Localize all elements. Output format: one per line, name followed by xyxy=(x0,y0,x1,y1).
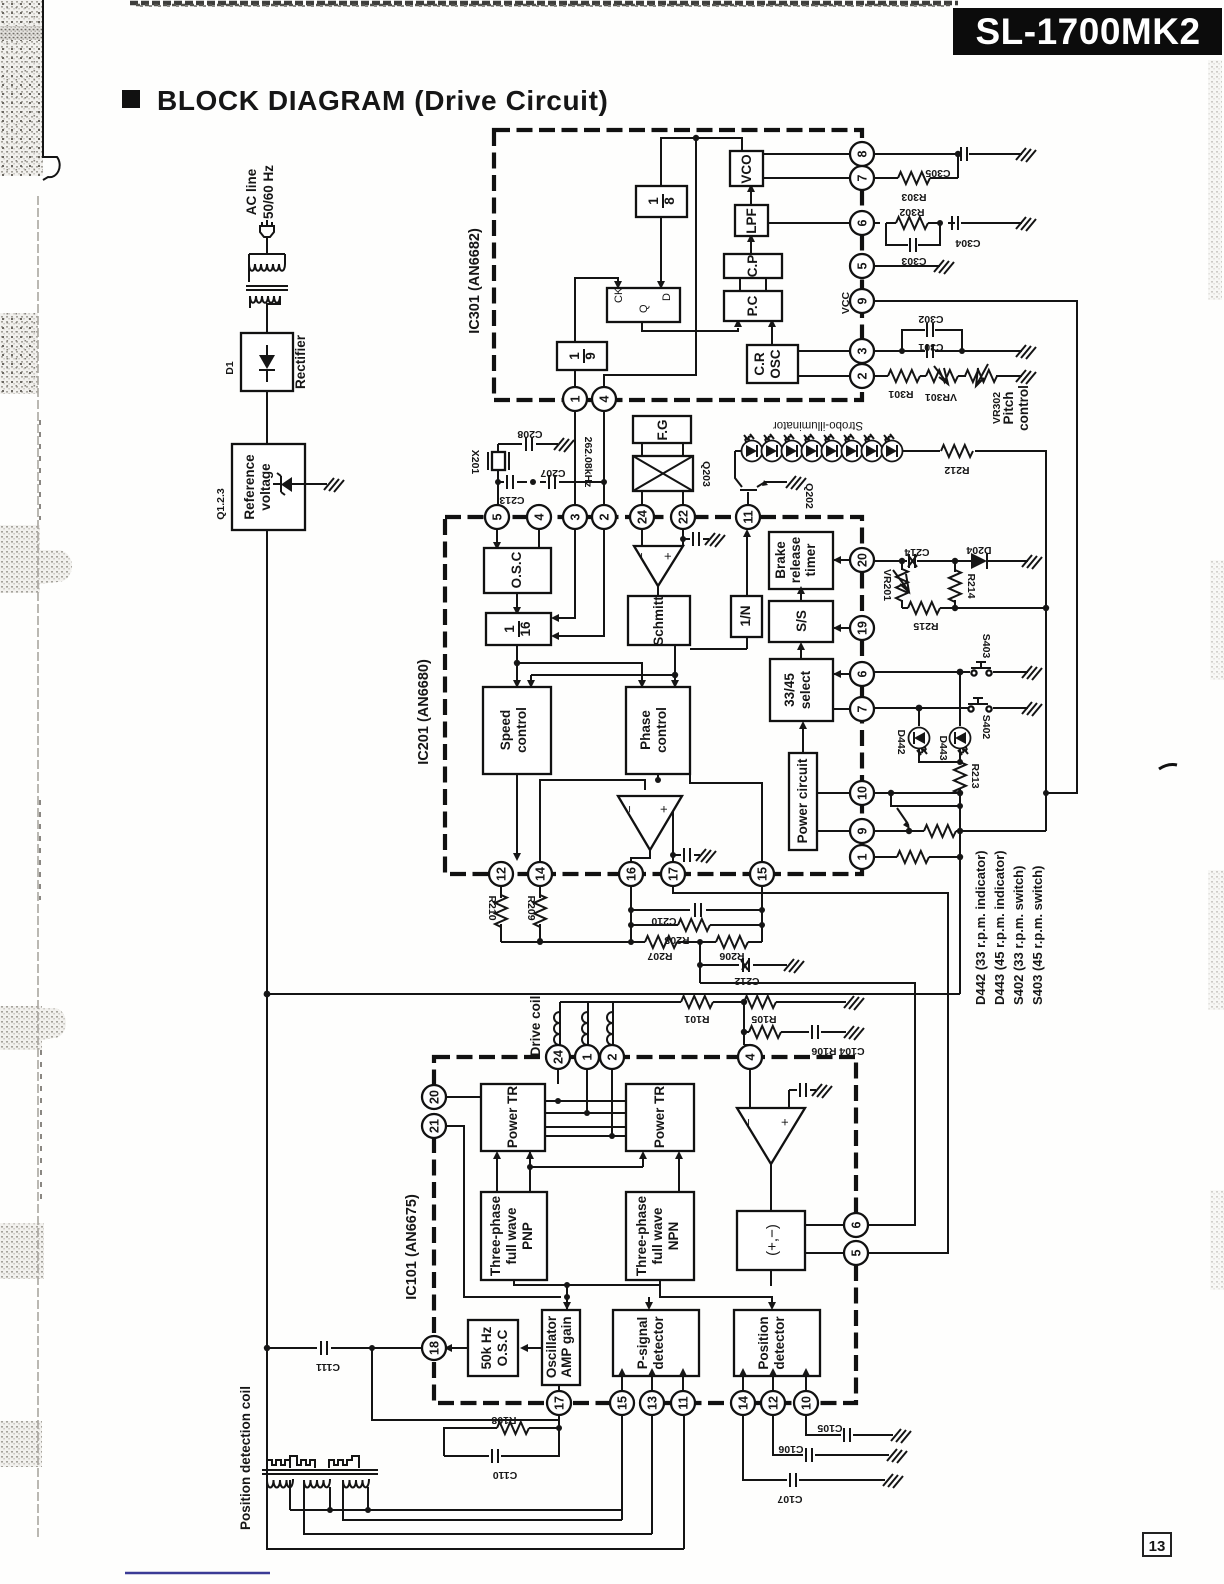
svg-text:6: 6 xyxy=(856,219,870,226)
svg-text:D442: D442 xyxy=(895,729,907,754)
svg-text:24: 24 xyxy=(636,510,650,524)
svg-text:D442 (33 r.p.m. indicator): D442 (33 r.p.m. indicator) xyxy=(973,850,988,1005)
svg-text:S403 (45 r.p.m. switch): S403 (45 r.p.m. switch) xyxy=(1030,866,1045,1005)
svg-text:16: 16 xyxy=(625,867,639,881)
svg-text:Q1.2.3: Q1.2.3 xyxy=(215,488,227,520)
svg-text:Oscillator: Oscillator xyxy=(544,1315,559,1378)
svg-text:R207: R207 xyxy=(647,950,672,962)
svg-text:20: 20 xyxy=(428,1090,442,1104)
svg-text:O.S.C: O.S.C xyxy=(509,551,524,588)
svg-text:VCO: VCO xyxy=(739,154,754,183)
svg-text:5: 5 xyxy=(850,1249,864,1256)
svg-text:C107: C107 xyxy=(777,1493,802,1505)
svg-text:LPF: LPF xyxy=(744,208,759,234)
svg-text:20: 20 xyxy=(856,553,870,567)
svg-text:5: 5 xyxy=(856,262,870,269)
svg-text:C106: C106 xyxy=(778,1443,803,1455)
svg-text:R301: R301 xyxy=(888,388,913,400)
svg-text:IC101 (AN6675): IC101 (AN6675) xyxy=(404,1194,420,1300)
svg-text:full wave: full wave xyxy=(504,1207,519,1265)
svg-text:R105: R105 xyxy=(751,1013,776,1025)
svg-text:D: D xyxy=(661,293,673,301)
svg-text:Q: Q xyxy=(638,304,650,313)
svg-text:control: control xyxy=(514,707,529,753)
svg-text:timer: timer xyxy=(803,543,818,577)
svg-text:7: 7 xyxy=(856,705,870,712)
svg-text:50k Hz: 50k Hz xyxy=(479,1326,494,1369)
svg-text:18: 18 xyxy=(428,1341,442,1355)
svg-text:13: 13 xyxy=(1149,1538,1166,1555)
svg-text:NPN: NPN xyxy=(666,1222,681,1251)
svg-text:R101: R101 xyxy=(684,1013,709,1025)
svg-text:R215: R215 xyxy=(913,620,938,632)
svg-text:Speed: Speed xyxy=(498,710,513,751)
svg-text:17: 17 xyxy=(553,1396,567,1410)
svg-text:5: 5 xyxy=(491,513,505,520)
svg-text:4: 4 xyxy=(533,513,547,520)
svg-text:C208: C208 xyxy=(517,428,542,440)
svg-text:O.S.C: O.S.C xyxy=(495,1329,510,1366)
svg-text:S402: S402 xyxy=(980,715,992,740)
svg-text:1: 1 xyxy=(856,853,870,860)
svg-text:2: 2 xyxy=(606,1053,620,1060)
svg-text:D443 (45 r.p.m. indicator): D443 (45 r.p.m. indicator) xyxy=(992,850,1007,1005)
svg-text:2: 2 xyxy=(598,513,612,520)
svg-text:17: 17 xyxy=(667,867,681,881)
svg-text:S403: S403 xyxy=(980,634,992,659)
svg-text:+: + xyxy=(656,805,671,813)
svg-text:12: 12 xyxy=(767,1396,781,1410)
svg-text:8: 8 xyxy=(662,197,677,205)
svg-text:R214: R214 xyxy=(965,573,977,598)
svg-text:Power TR: Power TR xyxy=(652,1086,667,1149)
svg-text:10: 10 xyxy=(856,786,870,800)
svg-text:4: 4 xyxy=(598,395,612,402)
svg-text:C.R: C.R xyxy=(752,352,767,376)
svg-text:C301: C301 xyxy=(918,341,943,353)
svg-text:+: + xyxy=(660,552,675,560)
svg-text:Schmitt: Schmitt xyxy=(651,596,666,646)
svg-text:Position: Position xyxy=(756,1316,771,1369)
svg-text:−: − xyxy=(741,1118,756,1126)
svg-text:X201: X201 xyxy=(469,450,481,475)
svg-text:−: − xyxy=(622,805,637,813)
svg-text:13: 13 xyxy=(646,1396,660,1410)
svg-text:C212: C212 xyxy=(734,975,759,987)
svg-text:8: 8 xyxy=(856,150,870,157)
svg-text:15: 15 xyxy=(616,1396,630,1410)
svg-text:R209: R209 xyxy=(525,895,537,920)
svg-text:C110: C110 xyxy=(493,1469,518,1481)
svg-text:7: 7 xyxy=(856,174,870,181)
svg-text:C213: C213 xyxy=(499,494,524,506)
svg-text:11: 11 xyxy=(677,1396,691,1409)
svg-text:IC301 (AN6682): IC301 (AN6682) xyxy=(467,228,483,334)
svg-text:33/45: 33/45 xyxy=(782,673,797,707)
svg-text:OSC: OSC xyxy=(768,349,783,379)
svg-text:+: + xyxy=(777,1118,792,1126)
svg-text:VR201: VR201 xyxy=(881,569,893,601)
svg-text:D443: D443 xyxy=(937,735,949,760)
svg-text:R302: R302 xyxy=(899,206,924,218)
svg-text:1: 1 xyxy=(581,1053,595,1060)
svg-text:4: 4 xyxy=(744,1053,758,1060)
svg-text:S/S: S/S xyxy=(794,610,809,632)
svg-text:P-signal: P-signal xyxy=(635,1317,650,1370)
svg-text:SL-1700MK2: SL-1700MK2 xyxy=(975,11,1200,52)
svg-text:R213: R213 xyxy=(969,763,981,788)
svg-text:Brake: Brake xyxy=(773,541,788,579)
svg-text:AC line: AC line xyxy=(244,168,259,215)
svg-text:S402 (33 r.p.m. switch): S402 (33 r.p.m. switch) xyxy=(1011,866,1026,1005)
svg-text:1/N: 1/N xyxy=(738,605,753,626)
svg-text:(+,−): (+,−) xyxy=(764,1224,781,1256)
svg-text:C105: C105 xyxy=(817,1422,842,1434)
svg-text:50/60 Hz: 50/60 Hz xyxy=(261,165,276,219)
svg-text:Pitch: Pitch xyxy=(1001,391,1016,424)
svg-text:Three-phase: Three-phase xyxy=(634,1195,649,1276)
svg-text:14: 14 xyxy=(534,867,548,881)
svg-text:P.C: P.C xyxy=(745,295,760,316)
svg-text:IC201 (AN6680): IC201 (AN6680) xyxy=(416,659,432,765)
svg-text:C214: C214 xyxy=(904,546,929,558)
svg-text:262.08kHz: 262.08kHz xyxy=(582,437,594,488)
svg-text:Power circuit: Power circuit xyxy=(795,758,810,843)
svg-text:2: 2 xyxy=(856,372,870,379)
svg-text:Phase: Phase xyxy=(638,710,653,750)
svg-text:Drive coil: Drive coil xyxy=(528,996,543,1057)
svg-text:9: 9 xyxy=(583,352,598,360)
svg-text:Q203: Q203 xyxy=(700,461,712,487)
svg-text:1: 1 xyxy=(569,395,583,402)
svg-text:D204: D204 xyxy=(966,544,991,556)
svg-text:Position detection coil: Position detection coil xyxy=(238,1386,253,1530)
svg-text:F.G: F.G xyxy=(655,419,670,440)
svg-text:R212: R212 xyxy=(944,464,969,476)
svg-text:voltage: voltage xyxy=(258,463,273,511)
svg-text:−: − xyxy=(634,552,649,560)
svg-text:BLOCK DIAGRAM (Drive Circuit): BLOCK DIAGRAM (Drive Circuit) xyxy=(157,85,608,116)
svg-text:Reference: Reference xyxy=(242,454,257,520)
svg-text:detector: detector xyxy=(651,1316,666,1370)
svg-text:C303: C303 xyxy=(901,255,926,267)
svg-text:R303: R303 xyxy=(901,191,926,203)
svg-text:16: 16 xyxy=(518,621,533,637)
svg-text:11: 11 xyxy=(742,510,756,523)
svg-text:full wave: full wave xyxy=(650,1207,665,1265)
svg-text:PNP: PNP xyxy=(520,1222,535,1250)
svg-text:C302: C302 xyxy=(918,313,943,325)
svg-text:Q202: Q202 xyxy=(803,483,815,509)
svg-text:9: 9 xyxy=(856,297,870,304)
svg-text:detector: detector xyxy=(772,1316,787,1370)
svg-text:VCC: VCC xyxy=(840,291,852,314)
svg-text:1: 1 xyxy=(646,197,661,205)
svg-text:C304: C304 xyxy=(955,237,980,249)
svg-text:release: release xyxy=(788,536,803,583)
svg-text:6: 6 xyxy=(850,1221,864,1228)
svg-text:10: 10 xyxy=(800,1396,814,1410)
svg-text:C111: C111 xyxy=(316,1361,340,1373)
svg-text:R210: R210 xyxy=(486,895,498,920)
svg-text:D1: D1 xyxy=(224,361,236,375)
svg-text:C.P: C.P xyxy=(745,255,760,278)
svg-text:Strobo-illuminator: Strobo-illuminator xyxy=(773,419,863,431)
svg-text:select: select xyxy=(798,670,813,709)
svg-text:14: 14 xyxy=(737,1396,751,1410)
svg-text:Three-phase: Three-phase xyxy=(488,1195,503,1276)
svg-text:12: 12 xyxy=(495,867,509,881)
svg-text:15: 15 xyxy=(756,867,770,881)
svg-text:control: control xyxy=(1016,385,1031,431)
svg-text:Rectifier: Rectifier xyxy=(293,334,308,389)
svg-text:9: 9 xyxy=(856,827,870,834)
svg-text:control: control xyxy=(654,707,669,753)
svg-text:24: 24 xyxy=(552,1050,566,1064)
svg-text:1: 1 xyxy=(567,352,582,360)
svg-text:CK: CK xyxy=(613,287,625,303)
svg-text:19: 19 xyxy=(856,621,870,635)
svg-text:22: 22 xyxy=(677,510,691,524)
svg-text:3: 3 xyxy=(856,347,870,354)
svg-text:Power TR: Power TR xyxy=(505,1086,520,1149)
svg-text:21: 21 xyxy=(428,1119,442,1133)
svg-text:6: 6 xyxy=(856,670,870,677)
svg-text:AMP gain: AMP gain xyxy=(559,1316,574,1377)
svg-text:1: 1 xyxy=(502,625,517,633)
svg-text:C207: C207 xyxy=(540,467,565,479)
svg-text:3: 3 xyxy=(569,513,583,520)
svg-text:VR301: VR301 xyxy=(925,391,957,403)
